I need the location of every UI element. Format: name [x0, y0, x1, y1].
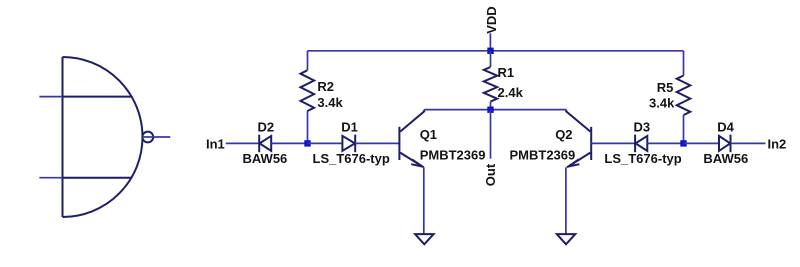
diode D2 cathode bar [258, 135, 260, 153]
transistor Q1 base bar [398, 127, 400, 160]
diode D4 cathode bar [730, 135, 732, 153]
ground symbol G1 [415, 234, 434, 244]
NAND gate U1 body flat side [62, 57, 64, 217]
wire In1 to D2 [226, 142, 259, 144]
wire D2 to node A [271, 142, 307, 144]
svg-text:R1: R1 [498, 65, 515, 80]
diode D1 triangle [342, 136, 355, 151]
transistor Q1 collector line [400, 110, 424, 132]
transistor Q2 base bar [590, 127, 592, 160]
svg-text:3.4k: 3.4k [649, 96, 675, 111]
resistor R2 [301, 70, 315, 111]
svg-text:In2: In2 [768, 137, 787, 152]
svg-text:VDD: VDD [484, 6, 499, 33]
wire VDD rail [308, 50, 684, 52]
NAND gate output lead [143, 136, 171, 138]
NAND gate input lead 1 [63, 96, 132, 98]
transistor Q2 emitter arrow [568, 160, 579, 167]
svg-text:2.4k: 2.4k [498, 85, 524, 100]
NAND gate output bubble [142, 132, 153, 143]
svg-text:D4: D4 [717, 120, 734, 135]
wire Q1 emitter to ground [423, 167, 425, 234]
node junction Out [487, 107, 493, 113]
svg-text:BAW56: BAW56 [243, 151, 288, 166]
wire NAND input 1 stub [39, 96, 62, 98]
svg-text:D1: D1 [341, 120, 358, 135]
svg-text:LS_T676-typ: LS_T676-typ [604, 151, 681, 166]
wire node B to D4 [684, 142, 720, 144]
wire D3 to node B [647, 142, 683, 144]
diode D3 cathode bar [634, 135, 636, 153]
svg-text:PMBT2369: PMBT2369 [510, 148, 576, 163]
wire Q2 base to D3 [591, 142, 635, 144]
wire Q2 emitter to ground [565, 167, 567, 234]
diode D4 triangle [719, 136, 730, 151]
wire R5 bottom lead [683, 115, 685, 144]
resistor R5 [677, 76, 691, 116]
diode D2 triangle [260, 136, 272, 151]
svg-text:R2: R2 [317, 79, 334, 94]
wire collector bus Q1 to Q2 [424, 109, 566, 111]
wire node A to D1 [308, 142, 343, 144]
node junction VDD-R1 [487, 48, 493, 54]
svg-text:LS_T676-typ: LS_T676-typ [313, 151, 390, 166]
transistor Q2 collector line [566, 110, 590, 132]
svg-text:R5: R5 [657, 80, 674, 95]
svg-text:Q1: Q1 [420, 127, 437, 142]
wire R2 top lead [307, 51, 309, 71]
wire Out stub [490, 110, 492, 159]
NAND gate U1 body arc [63, 57, 143, 217]
svg-text:BAW56: BAW56 [703, 151, 748, 166]
svg-text:3.4k: 3.4k [317, 95, 343, 110]
svg-text:PMBT2369: PMBT2369 [420, 148, 486, 163]
diode D1 cathode bar [354, 135, 356, 153]
node junction A (R2 bottom) [304, 140, 310, 146]
NAND gate input lead 2 [63, 177, 132, 179]
wire D4 to In2 [731, 142, 766, 144]
transistor Q1 emitter line [400, 153, 424, 168]
wire VDD tick [489, 33, 491, 51]
wire R2 bottom lead [307, 111, 309, 143]
wire NAND input 2 stub [39, 177, 62, 179]
svg-text:D3: D3 [634, 120, 651, 135]
svg-text:In1: In1 [206, 137, 225, 152]
wire R1 bottom lead [490, 102, 492, 110]
wire D1 to Q1 base [355, 142, 398, 144]
wire R1 top lead [490, 51, 492, 67]
node junction B (R5 bottom) [680, 140, 686, 146]
transistor Q1 emitter arrow [411, 160, 422, 167]
diode D3 triangle [636, 136, 648, 151]
svg-text:Out: Out [483, 163, 498, 186]
svg-text:D2: D2 [258, 120, 275, 135]
ground symbol G2 [557, 234, 576, 244]
resistor R1 [484, 67, 497, 102]
svg-text:Q2: Q2 [555, 127, 572, 142]
wire R5 top lead [683, 51, 685, 76]
transistor Q2 emitter line [567, 153, 591, 168]
